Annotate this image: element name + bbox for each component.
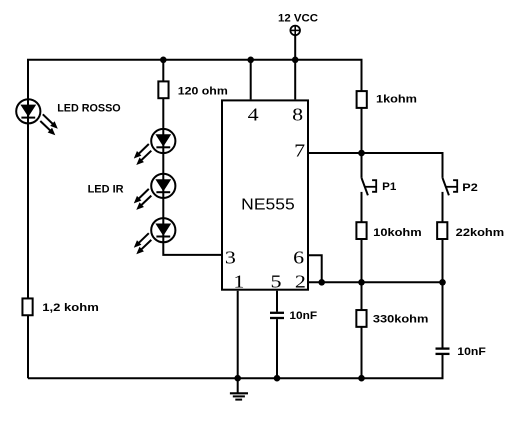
svg-text:NE555: NE555 [241, 196, 295, 213]
svg-text:12 VCC: 12 VCC [278, 13, 318, 25]
svg-text:3: 3 [225, 247, 236, 267]
svg-text:1: 1 [233, 271, 244, 291]
svg-text:P2: P2 [462, 182, 478, 194]
svg-text:330kohm: 330kohm [373, 314, 429, 326]
svg-text:7: 7 [294, 140, 305, 160]
svg-text:6: 6 [293, 247, 304, 267]
svg-text:2: 2 [295, 271, 306, 291]
svg-text:4: 4 [248, 104, 259, 124]
svg-text:22kohm: 22kohm [456, 227, 505, 239]
svg-text:5: 5 [271, 271, 282, 291]
svg-text:10kohm: 10kohm [373, 227, 422, 239]
svg-text:P1: P1 [382, 181, 396, 193]
svg-text:LED IR: LED IR [88, 184, 124, 196]
svg-text:8: 8 [292, 104, 303, 124]
svg-text:1kohm: 1kohm [376, 93, 417, 105]
svg-text:10nF: 10nF [289, 310, 317, 322]
svg-text:10nF: 10nF [457, 346, 486, 358]
svg-text:LED ROSSO: LED ROSSO [57, 103, 121, 115]
svg-text:1,2 kohm: 1,2 kohm [42, 302, 99, 314]
svg-text:120 ohm: 120 ohm [178, 86, 228, 98]
